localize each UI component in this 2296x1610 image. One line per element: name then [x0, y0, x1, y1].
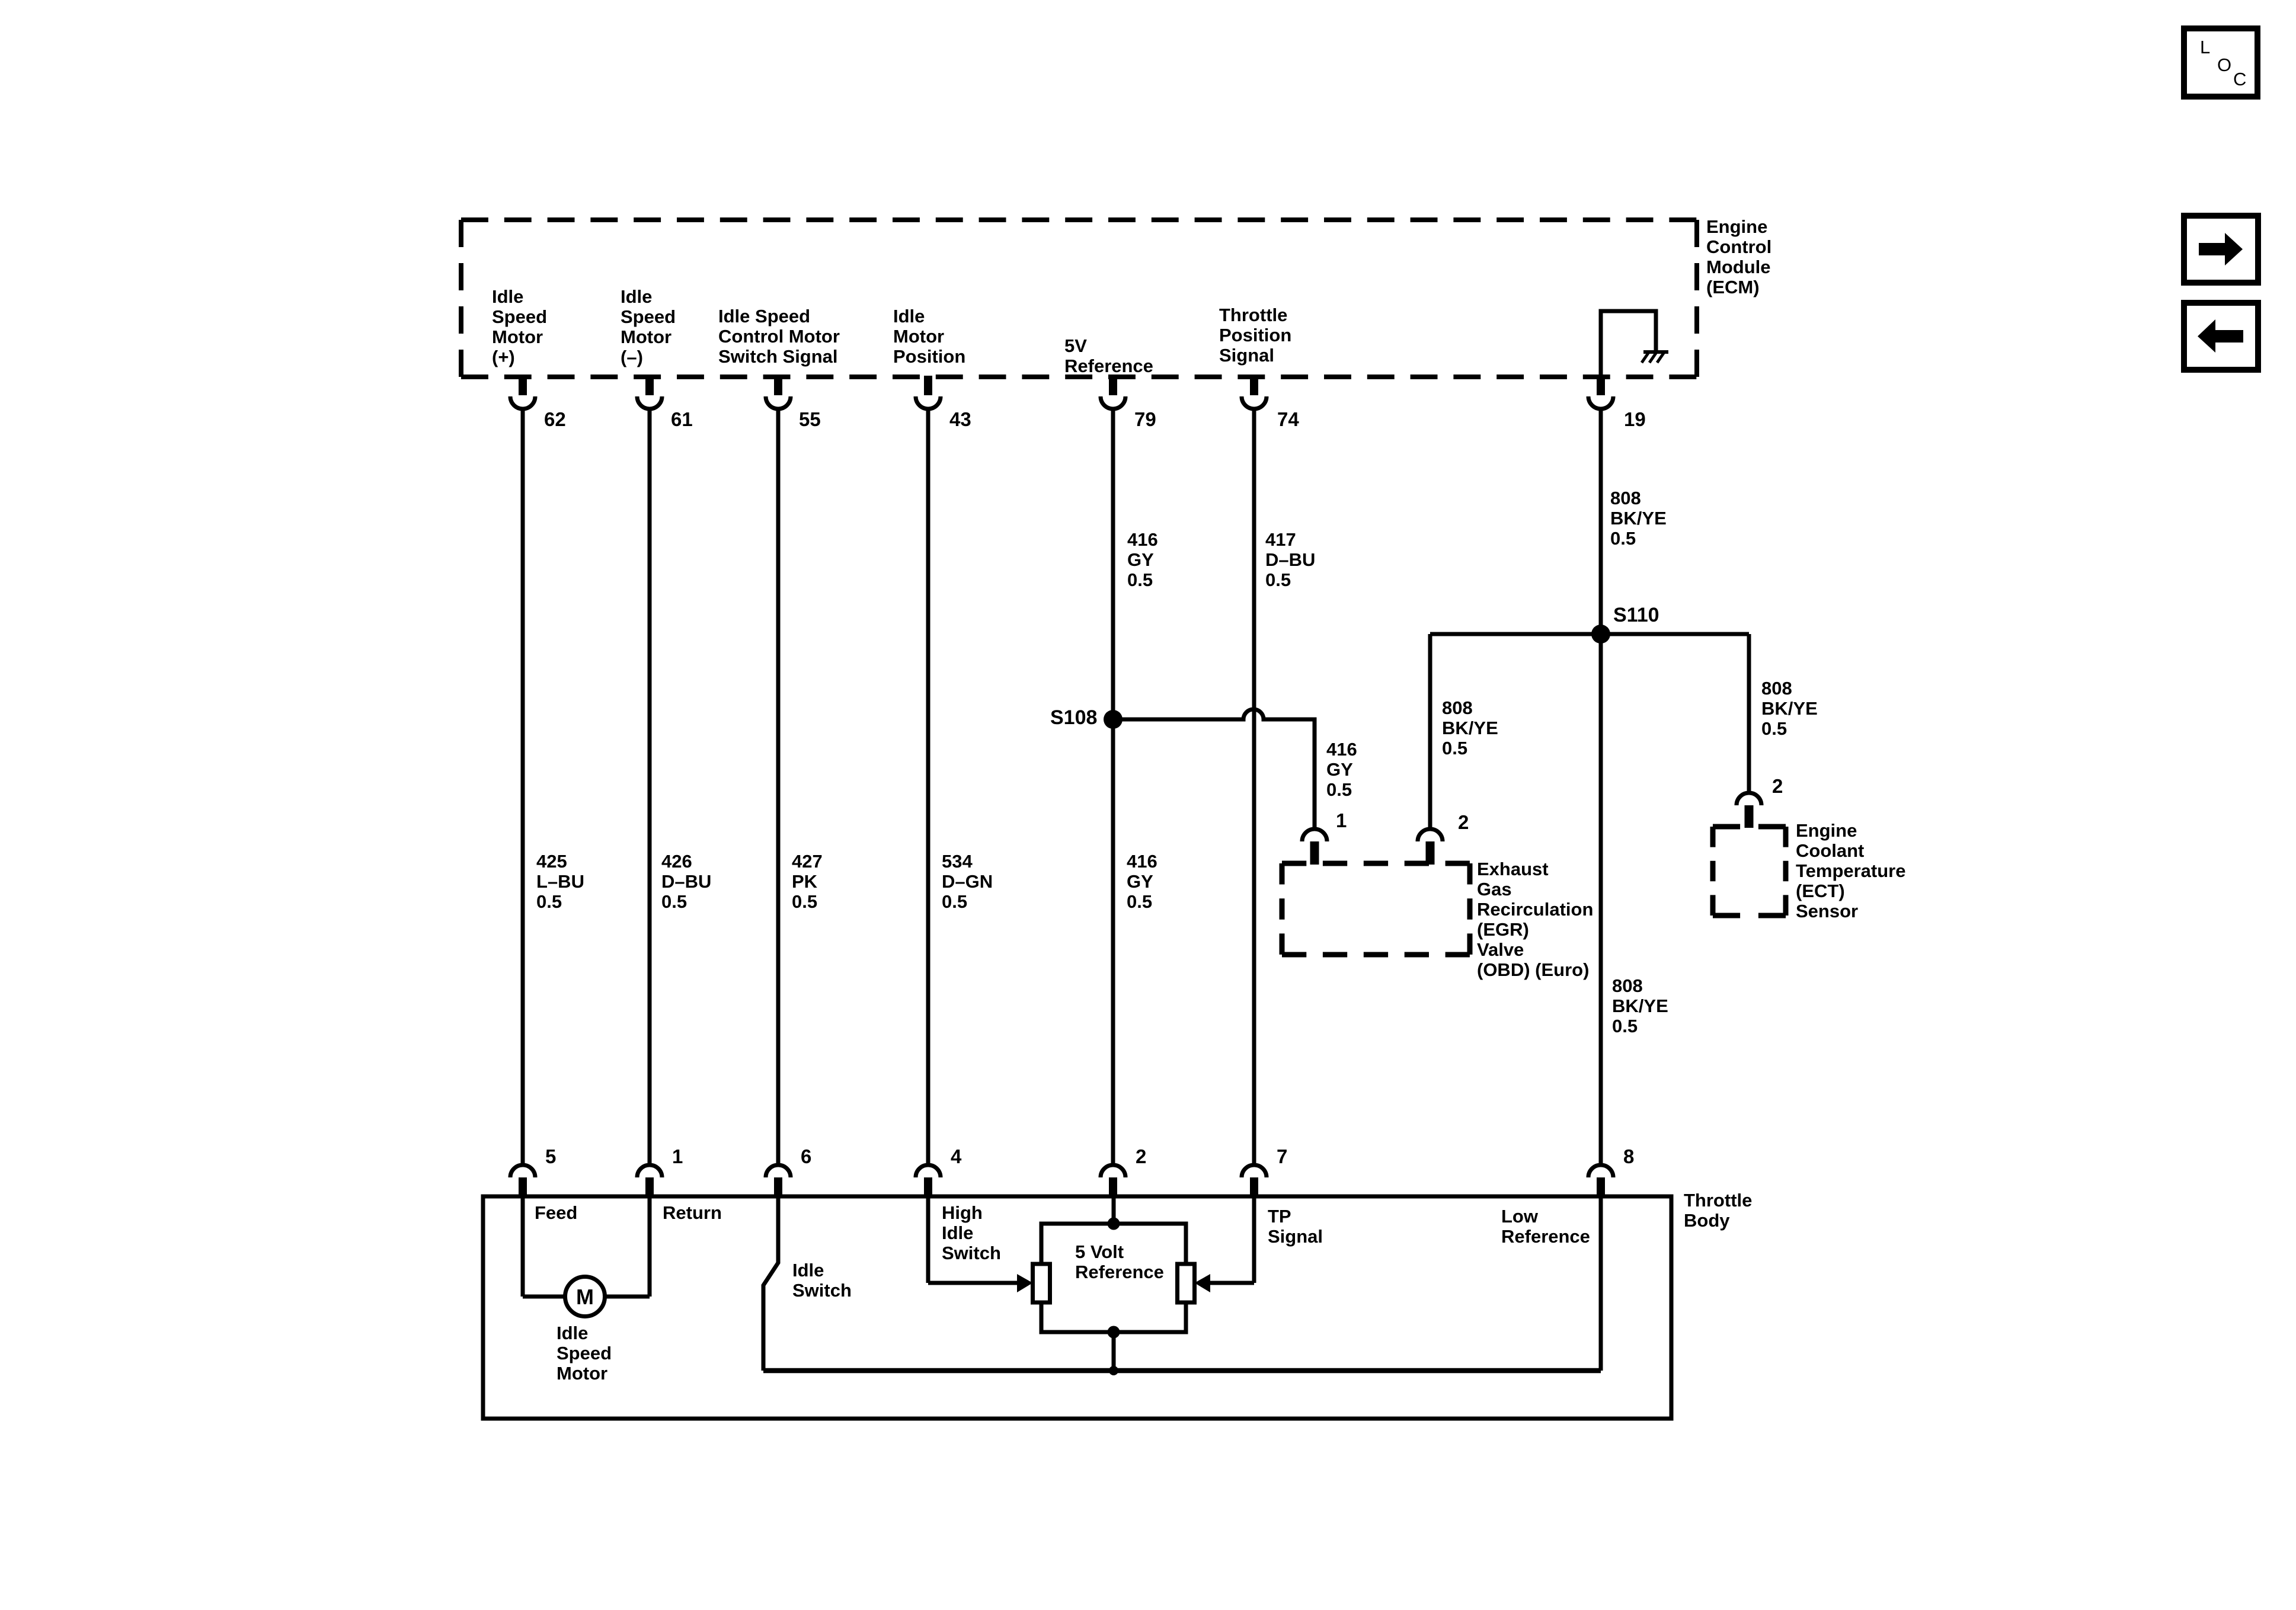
svg-text:0.5: 0.5	[1127, 891, 1152, 912]
svg-text:BK/YE: BK/YE	[1442, 718, 1498, 738]
svg-text:O: O	[2217, 55, 2231, 75]
svg-text:S110: S110	[1613, 604, 1659, 626]
svg-text:0.5: 0.5	[792, 891, 817, 912]
svg-text:Engine: Engine	[1796, 820, 1857, 841]
svg-text:8: 8	[1623, 1145, 1634, 1167]
svg-text:Switch: Switch	[942, 1243, 1001, 1263]
svg-text:M: M	[576, 1285, 594, 1309]
svg-text:Idle: Idle	[942, 1222, 973, 1243]
svg-text:(ECT): (ECT)	[1796, 881, 1845, 901]
svg-text:Return: Return	[663, 1202, 722, 1223]
svg-text:D–BU: D–BU	[661, 871, 711, 892]
svg-text:0.5: 0.5	[661, 891, 687, 912]
svg-text:Position: Position	[1219, 325, 1291, 345]
svg-text:0.5: 0.5	[536, 891, 562, 912]
svg-text:Throttle: Throttle	[1219, 305, 1287, 325]
svg-text:808: 808	[1610, 488, 1641, 508]
svg-text:Switch Signal: Switch Signal	[718, 346, 838, 367]
svg-text:L–BU: L–BU	[536, 871, 584, 892]
svg-text:Module: Module	[1706, 257, 1771, 277]
svg-text:416: 416	[1326, 739, 1357, 760]
svg-text:43: 43	[949, 408, 971, 430]
svg-text:7: 7	[1277, 1145, 1287, 1167]
svg-text:417: 417	[1265, 529, 1296, 550]
svg-text:(–): (–)	[621, 347, 643, 367]
svg-text:L: L	[2200, 37, 2210, 57]
svg-text:74: 74	[1277, 408, 1299, 430]
svg-text:(+): (+)	[492, 347, 515, 367]
svg-text:Reference: Reference	[1075, 1262, 1164, 1282]
svg-text:0.5: 0.5	[1326, 779, 1352, 800]
svg-text:427: 427	[792, 851, 823, 872]
svg-text:Motor: Motor	[893, 326, 944, 347]
svg-text:BK/YE: BK/YE	[1761, 698, 1818, 719]
svg-text:BK/YE: BK/YE	[1612, 996, 1668, 1016]
svg-text:Speed: Speed	[557, 1343, 612, 1363]
svg-text:Feed: Feed	[535, 1202, 577, 1223]
svg-text:Idle Speed: Idle Speed	[718, 306, 810, 327]
svg-text:Recirculation: Recirculation	[1477, 899, 1593, 920]
svg-text:Motor: Motor	[621, 327, 671, 347]
svg-text:C: C	[2233, 69, 2246, 89]
svg-text:(ECM): (ECM)	[1706, 277, 1760, 297]
svg-text:808: 808	[1761, 678, 1792, 699]
svg-text:534: 534	[942, 851, 973, 872]
svg-text:2: 2	[1772, 775, 1783, 797]
svg-text:(OBD) (Euro): (OBD) (Euro)	[1477, 959, 1589, 980]
svg-text:0.5: 0.5	[1610, 528, 1636, 549]
svg-text:0.5: 0.5	[1265, 569, 1291, 590]
svg-text:79: 79	[1134, 408, 1156, 430]
svg-text:808: 808	[1612, 975, 1643, 996]
svg-text:Throttle: Throttle	[1684, 1190, 1752, 1211]
svg-text:416: 416	[1127, 851, 1157, 872]
svg-text:GY: GY	[1127, 871, 1153, 892]
svg-text:S108: S108	[1050, 706, 1097, 729]
svg-text:5 Volt: 5 Volt	[1075, 1241, 1124, 1262]
svg-text:Reference: Reference	[1064, 356, 1153, 376]
svg-text:Motor: Motor	[557, 1363, 607, 1384]
svg-text:Control Motor: Control Motor	[718, 326, 840, 347]
svg-text:55: 55	[799, 408, 821, 430]
svg-text:Speed: Speed	[492, 306, 547, 327]
svg-text:(EGR): (EGR)	[1477, 919, 1529, 940]
svg-text:Low: Low	[1501, 1206, 1539, 1227]
svg-text:Coolant: Coolant	[1796, 840, 1864, 861]
svg-text:Idle: Idle	[893, 306, 925, 327]
svg-text:High: High	[942, 1202, 983, 1223]
svg-text:0.5: 0.5	[942, 891, 967, 912]
svg-text:0.5: 0.5	[1127, 569, 1153, 590]
svg-text:2: 2	[1458, 811, 1469, 833]
svg-text:62: 62	[544, 408, 566, 430]
svg-text:Exhaust: Exhaust	[1477, 859, 1549, 879]
svg-text:2: 2	[1136, 1145, 1146, 1167]
svg-text:1: 1	[672, 1145, 683, 1167]
svg-text:TP: TP	[1268, 1206, 1291, 1227]
svg-text:D–BU: D–BU	[1265, 549, 1315, 570]
svg-text:Valve: Valve	[1477, 939, 1524, 960]
svg-text:61: 61	[671, 408, 693, 430]
svg-text:Position: Position	[893, 346, 965, 367]
svg-text:5V: 5V	[1064, 335, 1087, 356]
svg-text:PK: PK	[792, 871, 818, 892]
svg-text:426: 426	[661, 851, 692, 872]
svg-text:Temperature: Temperature	[1796, 860, 1906, 881]
svg-text:Idle: Idle	[557, 1323, 588, 1343]
svg-text:D–GN: D–GN	[942, 871, 993, 892]
svg-text:416: 416	[1127, 529, 1158, 550]
svg-text:BK/YE: BK/YE	[1610, 508, 1667, 529]
svg-text:Switch: Switch	[792, 1280, 852, 1301]
svg-text:Sensor: Sensor	[1796, 901, 1858, 921]
svg-text:Reference: Reference	[1501, 1226, 1590, 1247]
svg-text:GY: GY	[1127, 549, 1154, 570]
svg-text:Speed: Speed	[621, 306, 676, 327]
svg-text:0.5: 0.5	[1442, 738, 1467, 758]
svg-text:Body: Body	[1684, 1210, 1730, 1231]
svg-text:Signal: Signal	[1268, 1226, 1323, 1247]
svg-text:808: 808	[1442, 697, 1473, 718]
svg-text:Engine: Engine	[1706, 216, 1767, 237]
svg-text:0.5: 0.5	[1612, 1016, 1638, 1036]
svg-text:5: 5	[545, 1145, 556, 1167]
svg-text:Idle: Idle	[792, 1260, 824, 1281]
svg-text:6: 6	[801, 1145, 811, 1167]
svg-text:Idle: Idle	[621, 286, 652, 307]
svg-text:Motor: Motor	[492, 327, 543, 347]
svg-text:0.5: 0.5	[1761, 718, 1787, 739]
svg-text:Idle: Idle	[492, 286, 523, 307]
svg-text:425: 425	[536, 851, 567, 872]
svg-text:19: 19	[1624, 408, 1646, 430]
svg-text:4: 4	[951, 1145, 962, 1167]
svg-text:Gas: Gas	[1477, 879, 1512, 900]
svg-text:Control: Control	[1706, 236, 1771, 257]
svg-text:GY: GY	[1326, 759, 1353, 780]
svg-text:1: 1	[1336, 809, 1347, 831]
svg-text:Signal: Signal	[1219, 345, 1274, 366]
